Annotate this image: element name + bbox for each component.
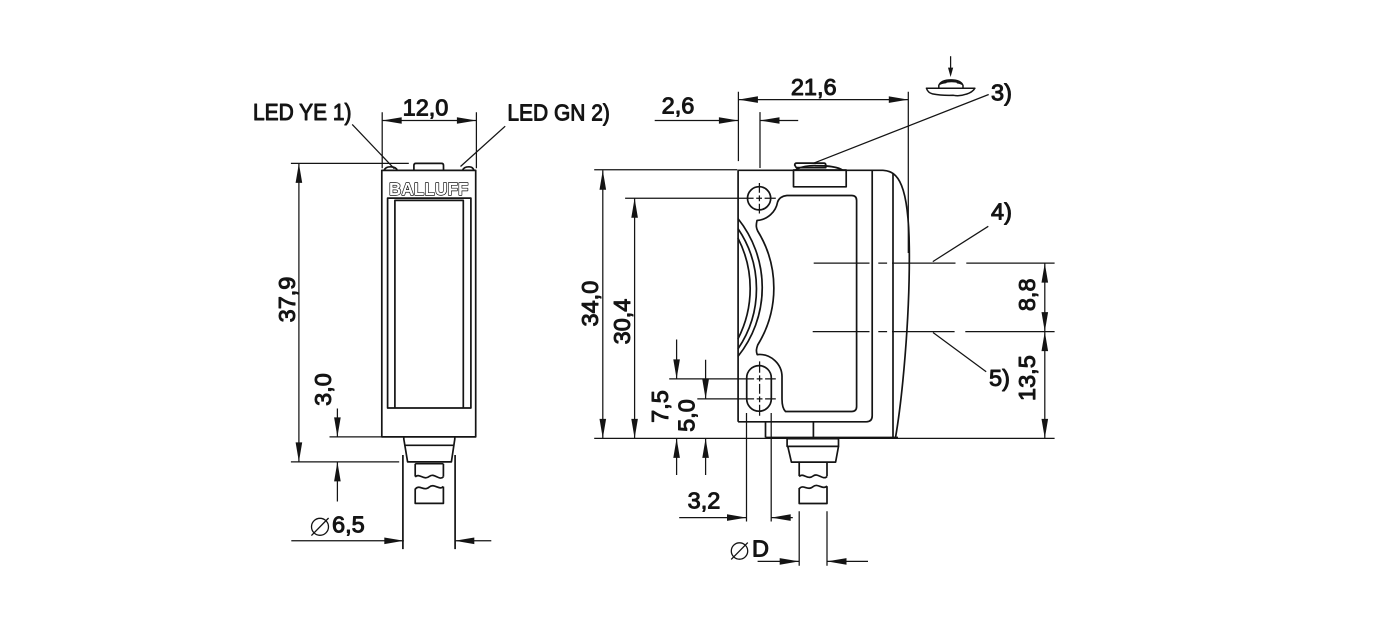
lens arc middle <box>738 229 757 350</box>
break wave upper <box>415 475 443 478</box>
optical axis 4) <box>814 262 1055 264</box>
dim 12,0 line <box>382 120 476 122</box>
dim 3,2 lines <box>679 517 793 519</box>
arrows 13,5 <box>1042 332 1049 352</box>
cable gland cone (front) <box>404 437 455 462</box>
arrows 3,2 <box>727 514 747 521</box>
slot crosshair vertical <box>759 361 761 415</box>
dim 7,5 lines <box>676 340 678 476</box>
svg-text:12,0: 12,0 <box>403 95 449 121</box>
dim 3,0 lines <box>336 409 338 502</box>
side gland cone <box>788 446 839 462</box>
top fixing tab <box>414 163 444 170</box>
press icon arrowhead <box>948 68 953 77</box>
hole crosshair vertical <box>758 183 760 214</box>
dim 34,0 line <box>602 170 604 438</box>
ext lines 21,6 <box>738 92 908 253</box>
arrows 21,6 <box>738 96 758 103</box>
svg-text:D: D <box>752 536 769 562</box>
lens arc outer <box>738 219 762 357</box>
ext line bottom 37,9 / 3,0 <box>291 461 399 463</box>
ext line 3,0 top <box>330 436 382 438</box>
svg-text:30,4: 30,4 <box>609 299 635 345</box>
side cable upper piece <box>799 462 827 476</box>
ext lines diam D <box>799 511 827 566</box>
svg-text:13,5: 13,5 <box>1014 355 1040 401</box>
bottom step right <box>812 422 814 438</box>
ext line 5,0 / slot crosshair bottom <box>697 398 776 400</box>
side cable lower piece <box>799 486 827 503</box>
svg-text:34,0: 34,0 <box>577 281 603 327</box>
svg-text:4): 4) <box>991 198 1012 224</box>
inner vertical edge <box>892 174 894 438</box>
dim 2,6 lines <box>655 120 799 122</box>
break wave lower <box>415 486 443 489</box>
ext line 30,4 / hole crosshair <box>625 197 776 199</box>
svg-text:3,0: 3,0 <box>310 373 336 406</box>
cable grommet sides (diam 6.5) <box>403 455 455 549</box>
optical axis 5) <box>813 331 1055 333</box>
dim 8,8 / 13,5 line <box>1044 263 1046 438</box>
body curved back <box>883 170 909 437</box>
svg-text:3,2: 3,2 <box>688 488 721 514</box>
teach button cap <box>795 163 826 168</box>
icon dome <box>939 80 963 88</box>
leader LED YE <box>352 124 394 168</box>
bottom reference line <box>594 437 1054 439</box>
icon dome dark crescent <box>939 80 962 85</box>
svg-text:5,0: 5,0 <box>674 399 700 432</box>
sensor body front outline <box>382 170 476 437</box>
arrows 34,0 <box>600 170 607 190</box>
dim diam D lines <box>758 560 868 562</box>
side cable break waves <box>799 475 827 478</box>
body top edge <box>738 169 883 171</box>
arrows 2,6 <box>719 117 739 124</box>
svg-text:6,5: 6,5 <box>332 512 365 538</box>
optical window outer frame <box>388 198 471 408</box>
ext lines 12,0 <box>382 112 476 168</box>
svg-text:21,6: 21,6 <box>791 74 837 100</box>
svg-text:7,5: 7,5 <box>647 390 673 423</box>
ext lines 3,2 <box>747 413 772 522</box>
body left edge <box>737 170 739 421</box>
gland cone divider line <box>405 444 454 446</box>
svg-text:5): 5) <box>989 365 1010 391</box>
arrows 7,5 <box>673 359 680 379</box>
lens arc inner <box>738 238 750 339</box>
ext line top 37,9 <box>291 162 409 164</box>
icon saucer <box>926 88 975 95</box>
LED YE bump (top-left) <box>384 167 397 171</box>
ext line 2,6 (hole centre) <box>759 112 761 168</box>
arrows 3,0 <box>334 417 341 437</box>
svg-text:37,9: 37,9 <box>274 277 300 323</box>
LED GN bump (top-right) <box>463 167 474 171</box>
cable core lower piece <box>415 487 443 504</box>
leader 5) <box>933 333 986 372</box>
dim 37,9 line <box>298 163 300 462</box>
arrows diam 6,5 <box>384 538 404 545</box>
svg-text:LED GN 2): LED GN 2) <box>507 100 610 126</box>
arrows 12,0 <box>382 117 402 124</box>
bottom mounting slot <box>747 366 772 412</box>
svg-text:LED YE 1): LED YE 1) <box>253 99 352 125</box>
icon dome slit <box>946 82 957 84</box>
teach button dome <box>796 166 843 171</box>
teach button housing <box>794 170 847 187</box>
dim line diam 6,5 <box>291 540 491 542</box>
front panel seam <box>756 196 856 412</box>
press icon arrow line <box>950 56 952 68</box>
body bottom edge <box>766 437 899 439</box>
svg-text:BALLUFF: BALLUFF <box>389 179 469 199</box>
dim 5,0 lines <box>705 360 707 475</box>
bottom step left <box>765 422 767 438</box>
arrows 30,4 <box>631 198 638 218</box>
cable core upper piece with break <box>415 464 443 477</box>
leader LED GN <box>461 126 506 166</box>
inner housing seam (rounded) <box>738 170 872 421</box>
optical window inner frame <box>395 200 463 408</box>
side gland plate <box>787 439 838 447</box>
text diam 6,5 <box>311 518 328 536</box>
arrows diam D <box>780 558 800 565</box>
top mounting hole <box>748 187 771 210</box>
svg-text:8,8: 8,8 <box>1014 278 1040 311</box>
ext line 7,5 / slot crosshair top <box>669 378 776 380</box>
svg-text:3): 3) <box>991 79 1012 105</box>
arrows 37,9 <box>296 163 303 183</box>
ext line 34,0 top <box>594 169 737 171</box>
leader 4) <box>933 226 989 261</box>
svg-text:2,6: 2,6 <box>662 93 695 119</box>
arrows 8,8 <box>1042 263 1049 283</box>
dim 30,4 line <box>634 198 636 438</box>
arrows 5,0 <box>702 379 709 399</box>
press icon button <box>926 80 975 96</box>
leader 3) <box>813 95 988 164</box>
text diam D <box>731 543 748 560</box>
dim 21,6 line <box>738 99 908 101</box>
